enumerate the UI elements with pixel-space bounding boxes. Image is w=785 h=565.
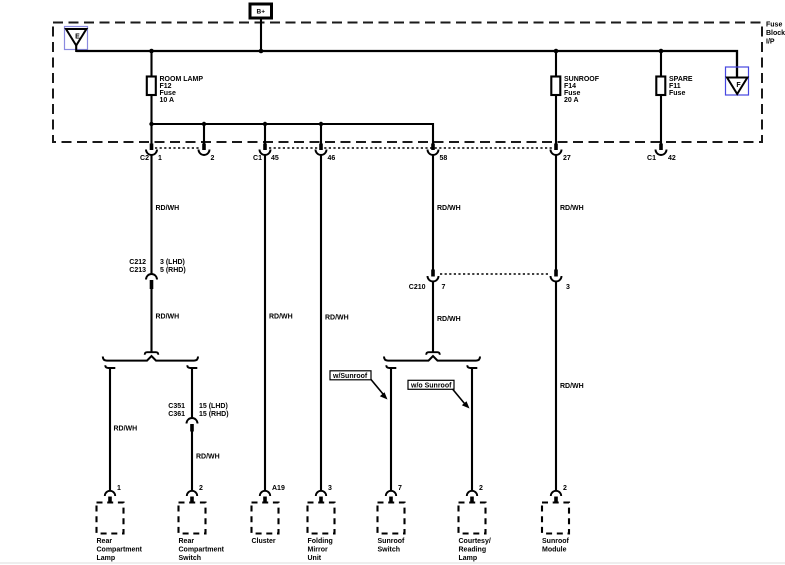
wire bus to fuse F12 bbox=[150, 51, 152, 77]
svg-text:Cluster: Cluster bbox=[252, 538, 276, 545]
svg-text:C210: C210 bbox=[409, 284, 426, 291]
inner distribution bus bbox=[152, 124, 434, 144]
wire bus to fuse F11 bbox=[660, 51, 662, 77]
splice S2 bbox=[384, 352, 480, 368]
label folding mirror unit bbox=[308, 538, 333, 562]
junction dot bus/F11 bbox=[659, 49, 664, 54]
junction dot inner/pin1 bbox=[149, 122, 153, 126]
svg-text:Fuse: Fuse bbox=[766, 22, 782, 29]
svg-text:F12: F12 bbox=[160, 83, 172, 90]
cluster box bbox=[252, 503, 279, 534]
svg-text:w/Sunroof: w/Sunroof bbox=[332, 373, 368, 380]
svg-text:46: 46 bbox=[328, 155, 336, 162]
callout w/o Sunroof bbox=[408, 380, 454, 389]
wire pin1 to C212 bbox=[150, 155, 152, 274]
sunroof module box bbox=[542, 503, 569, 534]
svg-text:F11: F11 bbox=[669, 83, 681, 90]
svg-text:RD/WH: RD/WH bbox=[325, 315, 349, 322]
callout w/Sunroof bbox=[330, 371, 371, 380]
wire pin58 to C210 bbox=[432, 155, 434, 270]
terminal pin 2 sunroof module bbox=[551, 491, 561, 504]
svg-text:15 (LHD): 15 (LHD) bbox=[199, 403, 228, 410]
svg-text:RD/WH: RD/WH bbox=[114, 426, 138, 433]
svg-text:Lamp: Lamp bbox=[97, 555, 116, 562]
fuse block I/P label bbox=[766, 22, 785, 46]
svg-text:3 (LHD): 3 (LHD) bbox=[160, 259, 185, 266]
svg-text:E: E bbox=[75, 34, 80, 41]
svg-text:Folding: Folding bbox=[308, 538, 333, 545]
svg-text:3: 3 bbox=[566, 284, 570, 291]
svg-text:C2: C2 bbox=[140, 155, 149, 162]
label fuse F12 ROOM LAMP 10A bbox=[160, 76, 204, 104]
svg-text:C212: C212 bbox=[129, 259, 146, 266]
svg-text:ROOM LAMP: ROOM LAMP bbox=[160, 76, 204, 83]
wire C351 to pin 2 rear switch bbox=[191, 431, 193, 491]
svg-text:RD/WH: RD/WH bbox=[437, 205, 461, 212]
svg-text:Fuse: Fuse bbox=[160, 90, 176, 97]
courtesy reading lamp box bbox=[459, 503, 486, 534]
harness dotted link C210 7-3 bbox=[440, 273, 550, 275]
svg-text:2: 2 bbox=[199, 485, 203, 492]
connector C351/C361 bbox=[187, 418, 198, 432]
label 3 LHD 5 RHD bbox=[160, 259, 186, 274]
svg-text:RD/WH: RD/WH bbox=[437, 316, 461, 323]
wire S1 to pin 1 rear lamp bbox=[109, 368, 111, 491]
terminal A19 cluster bbox=[260, 491, 270, 504]
wire pin45 to cluster bbox=[264, 155, 266, 491]
label sunroof module bbox=[542, 538, 569, 554]
wire F11 to connector 42 bbox=[660, 95, 662, 144]
svg-text:Rear: Rear bbox=[97, 538, 113, 545]
sunroof switch box bbox=[378, 503, 405, 534]
label fuse F14 SUNROOF 20A bbox=[564, 76, 600, 104]
junction dot inner/pin2 bbox=[202, 122, 206, 126]
label rear compartment switch bbox=[179, 538, 225, 562]
wire C210 to splice S2 bbox=[432, 282, 434, 352]
terminal pin 2 courtesy reading lamp bbox=[467, 491, 477, 504]
svg-text:20 A: 20 A bbox=[564, 97, 579, 104]
svg-text:RD/WH: RD/WH bbox=[156, 314, 180, 321]
rear compartment lamp box bbox=[97, 503, 124, 534]
wire inner bus to pin 2 bbox=[203, 124, 205, 144]
harness dotted link pins 45-58-27 bbox=[269, 147, 552, 149]
connector C1 pin 42 bbox=[656, 144, 667, 156]
svg-text:Courtesy/: Courtesy/ bbox=[459, 538, 491, 545]
wire C210-3 to sunroof module bbox=[555, 282, 557, 491]
junction dot bus/F14 bbox=[554, 49, 559, 54]
fuse F12 bbox=[147, 77, 156, 96]
svg-text:5 (RHD): 5 (RHD) bbox=[160, 267, 186, 274]
wire S1 to C351 bbox=[191, 368, 193, 418]
svg-text:Reading: Reading bbox=[459, 547, 487, 554]
junction dot bus/F12 bbox=[149, 49, 154, 54]
svg-text:C213: C213 bbox=[129, 267, 146, 274]
svg-text:Compartment: Compartment bbox=[179, 547, 225, 554]
svg-text:RD/WH: RD/WH bbox=[560, 205, 584, 212]
wire S2 to sunroof switch bbox=[390, 368, 392, 491]
label C212 C213 bbox=[129, 259, 146, 274]
connector C1 pin 45 bbox=[260, 144, 271, 156]
svg-text:Rear: Rear bbox=[179, 538, 195, 545]
wire pin27 to sunroof module bbox=[555, 155, 557, 270]
svg-text:Lamp: Lamp bbox=[459, 555, 478, 562]
wire E to bus bbox=[75, 46, 77, 53]
svg-text:Module: Module bbox=[542, 547, 567, 554]
svg-text:C361: C361 bbox=[168, 411, 185, 418]
svg-text:RD/WH: RD/WH bbox=[196, 454, 220, 461]
svg-text:C1: C1 bbox=[253, 155, 262, 162]
svg-text:Switch: Switch bbox=[378, 547, 401, 554]
wire S2 to courtesy lamp bbox=[471, 368, 473, 491]
symbol F power node bbox=[726, 67, 749, 95]
svg-text:Block: Block bbox=[766, 30, 785, 37]
svg-text:27: 27 bbox=[563, 155, 571, 162]
splice S1 bbox=[103, 352, 198, 368]
wire F14 to connector 27 bbox=[555, 95, 557, 144]
arrow w/Sunroof bbox=[371, 380, 388, 400]
terminal pin 2 rear compartment switch bbox=[187, 491, 197, 504]
svg-text:Compartment: Compartment bbox=[97, 547, 143, 554]
wire B+ to bus bbox=[260, 18, 262, 51]
connector C210 pin 3 bbox=[551, 270, 562, 282]
folding mirror unit box bbox=[308, 503, 335, 534]
svg-text:10 A: 10 A bbox=[160, 97, 175, 104]
svg-text:RD/WH: RD/WH bbox=[269, 314, 293, 321]
connector C2 pin 2 bbox=[199, 144, 210, 156]
terminal pin 1 rear compartment lamp bbox=[105, 491, 115, 504]
svg-text:7: 7 bbox=[398, 485, 402, 492]
label C351 C361 bbox=[168, 403, 185, 418]
battery feed B+ bbox=[250, 4, 272, 18]
svg-text:2: 2 bbox=[479, 485, 483, 492]
svg-text:Fuse: Fuse bbox=[669, 90, 685, 97]
fuse block I/P box bbox=[53, 23, 762, 143]
svg-text:1: 1 bbox=[158, 155, 162, 162]
svg-text:F: F bbox=[736, 82, 741, 89]
svg-text:2: 2 bbox=[563, 485, 567, 492]
svg-text:SUNROOF: SUNROOF bbox=[564, 76, 600, 83]
svg-text:45: 45 bbox=[271, 155, 279, 162]
connector C1 pin 58 bbox=[428, 144, 439, 156]
svg-text:SPARE: SPARE bbox=[669, 76, 693, 83]
arrow w/o Sunroof bbox=[453, 389, 470, 409]
junction dot bus/B+ bbox=[259, 49, 264, 54]
connector C2 pin 1 bbox=[146, 144, 157, 156]
svg-text:3: 3 bbox=[328, 485, 332, 492]
svg-text:Sunroof: Sunroof bbox=[378, 538, 405, 545]
harness dotted link pins 1-2 bbox=[155, 147, 200, 149]
svg-text:1: 1 bbox=[117, 485, 121, 492]
connector C212/C213 bbox=[146, 274, 157, 289]
connector C1 pin 46 bbox=[316, 144, 327, 156]
junction dot inner/pin46 bbox=[319, 122, 323, 126]
label fuse F11 SPARE bbox=[669, 76, 693, 97]
svg-text:Switch: Switch bbox=[179, 555, 202, 562]
svg-text:RD/WH: RD/WH bbox=[560, 383, 584, 390]
wire F12 to inner bus bbox=[150, 95, 152, 144]
svg-text:Mirror: Mirror bbox=[308, 547, 329, 554]
svg-text:I/P: I/P bbox=[766, 39, 775, 46]
fuse F11 bbox=[656, 77, 665, 96]
wire inner bus to pin 46 bbox=[320, 124, 322, 144]
connector pin 27 bbox=[551, 144, 562, 156]
svg-text:Unit: Unit bbox=[308, 555, 322, 562]
main bus wire (hot at all times) bbox=[76, 51, 737, 78]
svg-text:15 (RHD): 15 (RHD) bbox=[199, 411, 229, 418]
svg-text:2: 2 bbox=[211, 155, 215, 162]
wire bus to fuse F14 bbox=[555, 51, 557, 77]
rear compartment switch box bbox=[179, 503, 206, 534]
connector C210 pin 7 bbox=[428, 270, 439, 282]
wire pin46 to folding mirror bbox=[320, 155, 322, 491]
svg-text:C1: C1 bbox=[647, 155, 656, 162]
svg-text:Fuse: Fuse bbox=[564, 90, 580, 97]
terminal pin 3 folding mirror unit bbox=[316, 491, 326, 504]
svg-text:A19: A19 bbox=[272, 485, 285, 492]
svg-text:B+: B+ bbox=[257, 9, 266, 16]
symbol E power node bbox=[65, 27, 88, 50]
svg-text:F14: F14 bbox=[564, 83, 576, 90]
label 15 LHD 15 RHD bbox=[199, 403, 229, 418]
label courtesy reading lamp bbox=[459, 538, 491, 562]
svg-text:7: 7 bbox=[442, 284, 446, 291]
wire inner bus to pin 45 bbox=[264, 124, 266, 144]
svg-text:58: 58 bbox=[440, 155, 448, 162]
junction dot inner/pin45 bbox=[263, 122, 267, 126]
svg-text:42: 42 bbox=[668, 155, 676, 162]
svg-text:RD/WH: RD/WH bbox=[156, 205, 180, 212]
fuse F14 bbox=[551, 77, 560, 96]
label sunroof switch bbox=[378, 538, 405, 554]
svg-text:C351: C351 bbox=[168, 403, 185, 410]
terminal pin 7 sunroof switch bbox=[386, 491, 396, 504]
svg-text:Sunroof: Sunroof bbox=[542, 538, 569, 545]
wire C212 to splice S1 bbox=[150, 289, 152, 352]
svg-text:w/o Sunroof: w/o Sunroof bbox=[410, 382, 452, 389]
label rear compartment lamp bbox=[97, 538, 143, 562]
